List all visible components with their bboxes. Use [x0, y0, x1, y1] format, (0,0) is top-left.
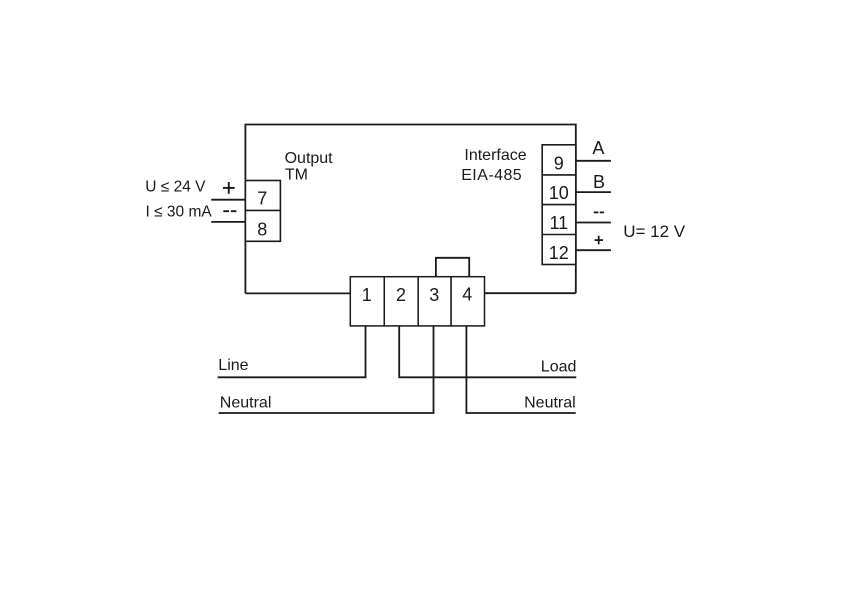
wire to pin 8 (-) — [211, 221, 245, 223]
svg-text:Line: Line — [218, 357, 248, 374]
wire terminal 3 to Neutral left — [219, 326, 434, 413]
svg-text:11: 11 — [549, 213, 568, 233]
svg-text:10: 10 — [549, 183, 569, 203]
svg-text:EIA-485: EIA-485 — [461, 167, 522, 184]
label Interface EIA-485 — [461, 147, 527, 184]
svg-text:3: 3 — [429, 285, 439, 305]
svg-text:8: 8 — [257, 220, 267, 240]
svg-text:Output: Output — [285, 150, 334, 167]
svg-text:A: A — [592, 138, 604, 158]
svg-text:Interface: Interface — [464, 147, 526, 164]
wire from device right edge to terminal 4 — [484, 292, 576, 294]
wire terminal 4 to Neutral right — [466, 326, 575, 413]
wire pin 10 to B — [576, 191, 611, 193]
jumper between terminals 3 and 4 — [436, 258, 469, 277]
svg-text:Neutral: Neutral — [220, 394, 272, 411]
wire pin 11 (-) — [576, 222, 611, 224]
mains terminal 3 — [418, 277, 451, 326]
svg-text:I ≤ 30 mA: I ≤ 30 mA — [146, 204, 213, 221]
device outline — [245, 125, 575, 294]
mains terminal 1 — [350, 277, 384, 326]
svg-text:Neutral: Neutral — [524, 394, 576, 411]
svg-text:1: 1 — [362, 285, 372, 305]
svg-text:U= 12 V: U= 12 V — [623, 222, 686, 241]
svg-text:B: B — [593, 172, 605, 192]
plus polarity mark at pin 7 — [223, 182, 235, 194]
wire pin 12 (+) — [576, 249, 611, 251]
svg-text:7: 7 — [257, 189, 267, 209]
output terminal block pins 7-8 — [245, 181, 280, 242]
svg-text:U ≤ 24 V: U ≤ 24 V — [145, 178, 206, 195]
mains terminal 2 — [384, 277, 418, 326]
interface terminal block pins 9-12 — [542, 145, 576, 265]
svg-text:4: 4 — [462, 285, 472, 305]
wire from device left edge to terminal 1 — [245, 292, 351, 294]
wire terminal 2 to Load — [399, 326, 576, 377]
svg-text:Load: Load — [541, 358, 577, 375]
minus polarity mark at pin 11 — [594, 211, 604, 213]
plus polarity mark at pin 12 — [595, 236, 603, 245]
svg-text:2: 2 — [396, 285, 406, 305]
svg-text:12: 12 — [549, 243, 569, 263]
mains terminal 4 — [451, 277, 484, 326]
svg-text:9: 9 — [554, 154, 564, 174]
label Output TM — [285, 150, 334, 183]
wire pin 9 to A — [576, 160, 611, 162]
wire to pin 7 (+) — [211, 199, 245, 201]
minus polarity mark at pin 8 — [223, 210, 236, 212]
svg-text:TM: TM — [285, 167, 308, 184]
wire terminal 1 to Line — [218, 326, 366, 377]
